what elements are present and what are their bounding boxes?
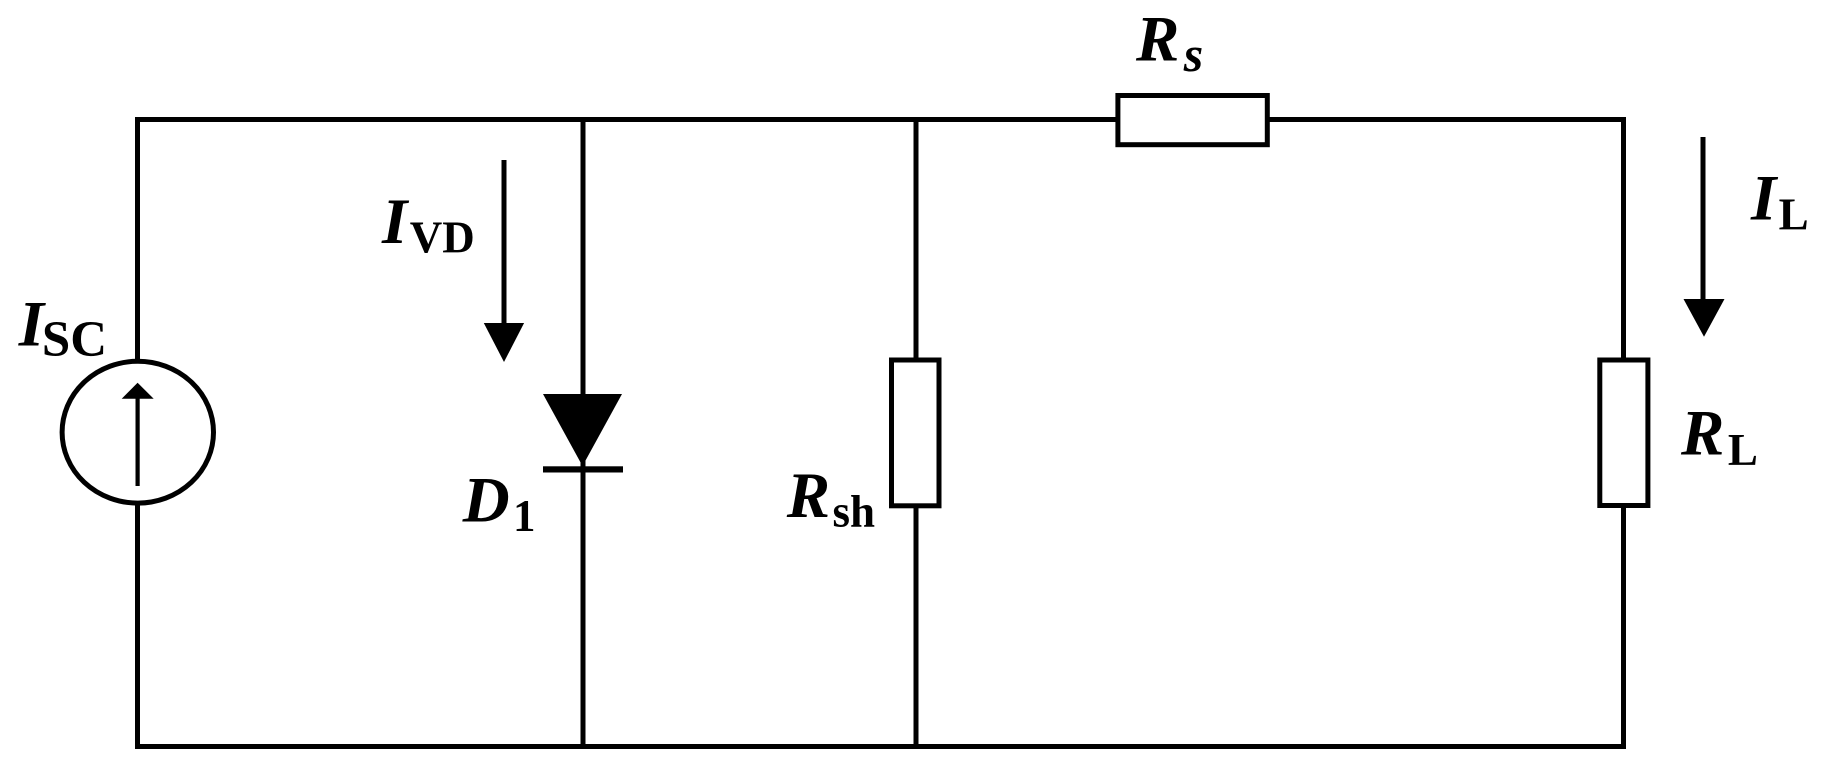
svg-text:SC: SC — [42, 312, 107, 368]
label IL — [1750, 163, 1809, 240]
label RL — [1680, 398, 1758, 476]
svg-text:D: D — [462, 465, 510, 537]
svg-text:R: R — [1135, 3, 1179, 75]
svg-text:R: R — [786, 460, 830, 532]
label ISC — [18, 289, 107, 369]
wire diode branch — [581, 117, 586, 749]
wire bottom bus — [135, 744, 1626, 749]
resistor Rs body — [1118, 96, 1267, 145]
diode D1 triangle — [543, 394, 622, 466]
svg-text:VD: VD — [410, 213, 475, 263]
wire left branch — [135, 117, 140, 749]
label Rs — [1135, 3, 1203, 82]
label D1 — [462, 465, 536, 541]
svg-text:1: 1 — [513, 491, 536, 541]
wire right branch — [1621, 117, 1626, 749]
diode D1 cathode bar — [543, 466, 623, 472]
wire top bus — [135, 117, 1626, 122]
current source ISC arrow — [122, 383, 154, 486]
wire Rsh branch — [914, 117, 919, 749]
svg-text:L: L — [1779, 190, 1809, 240]
svg-text:R: R — [1680, 398, 1724, 470]
svg-text:sh: sh — [833, 487, 876, 537]
arrow IL — [1684, 137, 1725, 337]
label Rsh — [786, 460, 875, 537]
svg-text:I: I — [1750, 163, 1779, 235]
arrow IVD — [484, 160, 524, 362]
svg-text:s: s — [1183, 26, 1203, 82]
svg-text:I: I — [381, 186, 410, 258]
resistor Rsh body — [892, 360, 940, 506]
current source ISC circle — [62, 361, 213, 503]
svg-text:L: L — [1728, 425, 1758, 475]
resistor RL body — [1600, 360, 1648, 506]
label IVD — [381, 186, 475, 263]
